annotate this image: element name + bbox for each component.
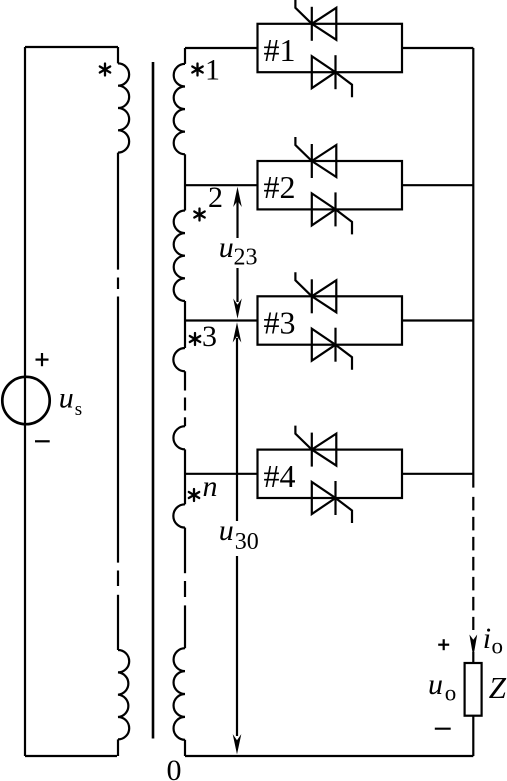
svg-text:#1: #1 — [264, 32, 296, 68]
svg-text:u: u — [219, 231, 234, 264]
svg-text:#4: #4 — [264, 458, 296, 494]
svg-text:u: u — [219, 514, 234, 547]
svg-text:30: 30 — [235, 529, 259, 555]
svg-text:#2: #2 — [264, 169, 296, 205]
svg-text:1: 1 — [205, 54, 220, 87]
svg-text:n: n — [203, 470, 218, 503]
svg-text:o: o — [492, 634, 504, 659]
svg-text:u: u — [59, 381, 74, 414]
svg-text:2: 2 — [208, 181, 223, 214]
svg-text:0: 0 — [167, 754, 182, 781]
svg-text:23: 23 — [234, 245, 258, 271]
svg-text:Z: Z — [489, 670, 507, 705]
svg-text:i: i — [483, 622, 491, 655]
svg-text:3: 3 — [202, 320, 217, 353]
svg-text:#3: #3 — [264, 305, 296, 341]
svg-text:s: s — [75, 399, 82, 420]
svg-text:o: o — [445, 681, 457, 706]
svg-text:u: u — [428, 668, 443, 701]
